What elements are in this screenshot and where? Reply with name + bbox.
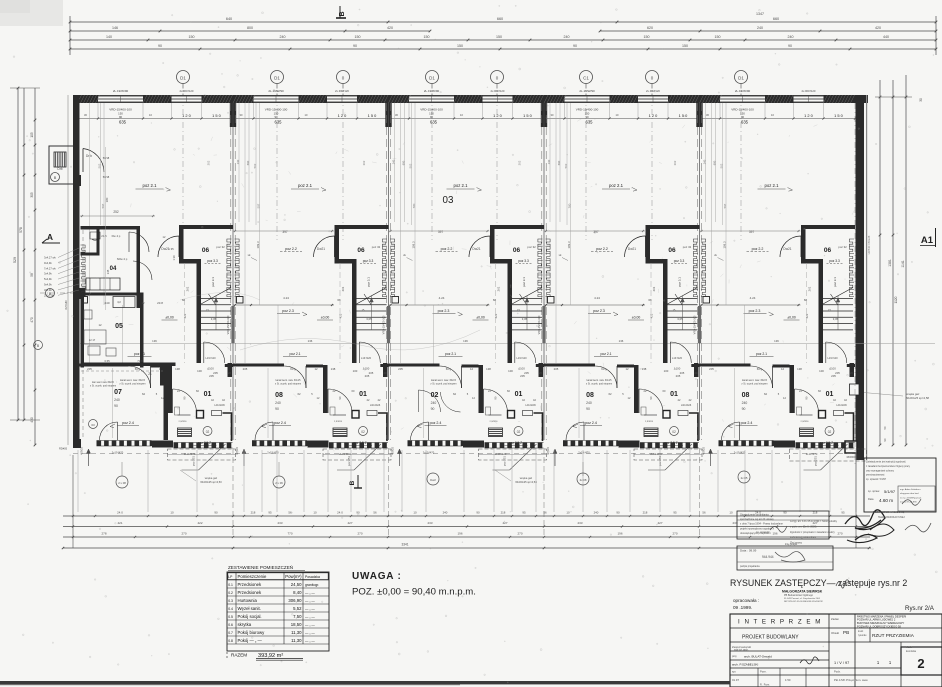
svg-text:podpis projektanta: podpis projektanta bbox=[740, 565, 760, 568]
svg-text:Data: Data bbox=[868, 497, 874, 501]
svg-text:poz 32: poz 32 bbox=[683, 245, 692, 249]
svg-text:poz 3.3: poz 3.3 bbox=[674, 259, 685, 263]
svg-text:150: 150 bbox=[189, 35, 195, 39]
svg-text:L19 f120: L19 f120 bbox=[516, 356, 527, 360]
svg-text:3x70x80: 3x70x80 bbox=[65, 300, 68, 310]
svg-text:opracowała :: opracowała : bbox=[733, 598, 759, 603]
replacement drawing note bbox=[730, 578, 935, 612]
svg-text:421: 421 bbox=[117, 521, 122, 525]
svg-text:100: 100 bbox=[508, 369, 513, 373]
svg-text:205: 205 bbox=[524, 371, 529, 375]
svg-text:196: 196 bbox=[772, 532, 777, 536]
svg-text:56: 56 bbox=[702, 511, 706, 515]
svg-text:±0,00: ±0,00 bbox=[476, 316, 485, 320]
svg-text:Dw21: Dw21 bbox=[628, 247, 636, 251]
svg-text:Δ100: Δ100 bbox=[674, 367, 681, 371]
svg-text:18,50: 18,50 bbox=[291, 622, 302, 627]
svg-text:8,40: 8,40 bbox=[293, 590, 302, 595]
svg-text:A: A bbox=[47, 232, 53, 242]
door arc into stair core x=233 bbox=[314, 236, 335, 257]
svg-text:L40-0A06: L40-0A06 bbox=[525, 404, 536, 407]
exterior right wall bbox=[856, 95, 868, 460]
svg-text:poz 2.1: poz 2.1 bbox=[298, 183, 313, 188]
svg-text:261: 261 bbox=[341, 286, 345, 291]
svg-text:635: 635 bbox=[275, 120, 283, 125]
svg-text:136: 136 bbox=[774, 339, 779, 343]
lower room center leader x=544 bbox=[578, 368, 580, 438]
svg-text:30: 30 bbox=[919, 98, 923, 102]
svg-text:640: 640 bbox=[226, 17, 232, 21]
svg-text:95: 95 bbox=[522, 511, 526, 515]
lower rooms walls x=544 bbox=[544, 363, 700, 441]
svg-text:2L19 f470: 2L19 f470 bbox=[495, 452, 507, 456]
wc fixtures x=388 bbox=[486, 407, 533, 423]
svg-text:205: 205 bbox=[398, 367, 403, 371]
svg-text:01: 01 bbox=[826, 391, 834, 398]
svg-text:skrytka: skrytka bbox=[238, 622, 252, 627]
svg-text:Zgodność z przepisami i zasada: Zgodność z przepisami i zasadami wiedzy bbox=[790, 531, 835, 534]
poz251 leader x=77 bbox=[182, 444, 226, 470]
svg-text:01: 01 bbox=[359, 391, 367, 398]
stair room labels x=544 bbox=[648, 245, 691, 318]
svg-text:poz 3.3: poz 3.3 bbox=[518, 259, 529, 263]
svg-text:Dr b: Dr b bbox=[86, 154, 92, 158]
svg-text:50/18: 50/18 bbox=[103, 175, 110, 179]
svg-text:62: 62 bbox=[297, 392, 301, 396]
exterior left wall bbox=[68, 95, 83, 445]
svg-text:Δ100: Δ100 bbox=[207, 367, 214, 371]
svg-text:302: 302 bbox=[518, 160, 522, 165]
svg-text:420: 420 bbox=[875, 26, 881, 30]
svg-text:21: 21 bbox=[148, 372, 152, 376]
svg-text:60x60x25 sp=4,50: 60x60x25 sp=4,50 bbox=[200, 480, 222, 484]
svg-text:poz 2.1: poz 2.1 bbox=[453, 183, 468, 188]
svg-text:3,05: 3,05 bbox=[677, 317, 683, 321]
svg-text:12 17: 12 17 bbox=[89, 338, 96, 342]
room schedule table bbox=[227, 564, 329, 660]
svg-text:58: 58 bbox=[30, 273, 34, 277]
right wall meander bbox=[849, 239, 854, 297]
svg-text:780: 780 bbox=[412, 203, 416, 208]
svg-text:Pomieszczenie: Pomieszczenie bbox=[238, 574, 268, 579]
svg-text:komórka: komórka bbox=[906, 649, 917, 653]
svg-text:90: 90 bbox=[158, 44, 162, 48]
svg-text:3341: 3341 bbox=[401, 543, 408, 547]
svg-text:205: 205 bbox=[835, 371, 840, 375]
svg-text:02: 02 bbox=[828, 430, 832, 434]
svg-text:PB Budownictwo Ogólnego: PB Budownictwo Ogólnego bbox=[784, 594, 814, 597]
svg-text:09 .1999.: 09 .1999. bbox=[733, 605, 752, 610]
svg-text:A-tryg. art. z dn. 05.xx.1994: A-tryg. art. z dn. 05.xx.1994 r. Tekst j… bbox=[790, 520, 838, 523]
terrace door arc x=233 bbox=[255, 422, 273, 440]
svg-text:07: 07 bbox=[114, 389, 122, 396]
svg-text:Zaświadczenie jest ważny(a) zg: Zaświadczenie jest ważny(a) zgodność bbox=[866, 461, 907, 464]
svg-text:9x4,9k: 9x4,9k bbox=[44, 283, 52, 287]
svg-text:— „ —: — „ — bbox=[305, 607, 315, 611]
svg-text:— „ —: — „ — bbox=[305, 615, 315, 619]
svg-text:poz 2.4: poz 2.4 bbox=[585, 421, 597, 425]
column footing box right bbox=[845, 441, 857, 459]
svg-text:Dw21: Dw21 bbox=[783, 247, 791, 251]
svg-text:D1: D1 bbox=[180, 75, 186, 80]
svg-text:62: 62 bbox=[608, 392, 612, 396]
svg-text:— „ —: — „ — bbox=[305, 631, 315, 635]
svg-text:z późn. zm. (Dz.U. 2000): z późn. zm. (Dz.U. 2000) bbox=[790, 525, 817, 528]
svg-text:240: 240 bbox=[431, 401, 437, 405]
svg-text:z St. ocynk. pod stropem: z St. ocynk. pod stropem bbox=[90, 384, 116, 387]
svg-text:2L19 f470: 2L19 f470 bbox=[184, 452, 196, 456]
svg-text:POZNAŃ UL.DOBROSZYCKIEGO 38: POZNAŃ UL.DOBROSZYCKIEGO 38 bbox=[857, 624, 901, 628]
poz251 leader x=388 bbox=[493, 444, 537, 470]
room labels lower x=233 bbox=[262, 379, 372, 446]
svg-text:690: 690 bbox=[713, 160, 717, 165]
svg-text:2,7x3,9k: 2,7x3,9k bbox=[44, 293, 55, 297]
svg-text:poz 3.1: poz 3.1 bbox=[833, 277, 837, 287]
svg-text:90: 90 bbox=[616, 511, 620, 515]
circled marker 02 x=233 bbox=[359, 427, 368, 436]
svg-text:1|2: 1|2 bbox=[117, 300, 121, 304]
svg-text:233: 233 bbox=[427, 521, 432, 525]
svg-text:poz 3.1: poz 3.1 bbox=[678, 277, 682, 287]
door arc room01 x=77 bbox=[173, 389, 197, 413]
svg-text:218: 218 bbox=[251, 511, 256, 515]
svg-text:Pokój biurowy: Pokój biurowy bbox=[238, 630, 266, 635]
room labels lower x=544 bbox=[573, 379, 683, 446]
grid dashdot right wall bbox=[854, 103, 856, 465]
svg-text:5,52: 5,52 bbox=[293, 606, 302, 611]
svg-text:arch. BULAT-Oswald: arch. BULAT-Oswald bbox=[744, 655, 772, 659]
svg-text:2,9/9/26: 2,9/9/26 bbox=[490, 421, 499, 423]
svg-text:03: 03 bbox=[91, 423, 95, 427]
staircase treads x=233 bbox=[357, 288, 387, 331]
svg-text:205: 205 bbox=[213, 371, 218, 375]
svg-text:240: 240 bbox=[104, 301, 109, 305]
svg-text:421: 421 bbox=[183, 313, 187, 318]
svg-text:poz 2.1: poz 2.1 bbox=[445, 352, 456, 356]
svg-text:z St. ocynk. pod stropem: z St. ocynk. pod stropem bbox=[741, 382, 767, 385]
svg-text:90: 90 bbox=[742, 407, 746, 411]
svg-text:136: 136 bbox=[463, 339, 468, 343]
svg-text:0.7: 0.7 bbox=[228, 631, 233, 635]
svg-text:02: 02 bbox=[517, 430, 521, 434]
svg-text:90: 90 bbox=[214, 511, 218, 515]
section marker B top bbox=[336, 6, 346, 18]
lower room center leader x=699 bbox=[734, 368, 736, 438]
svg-text:90: 90 bbox=[788, 44, 792, 48]
svg-text:5x4,9k: 5x4,9k bbox=[44, 277, 52, 281]
svg-text:04: 04 bbox=[110, 266, 117, 272]
poz251 leader x=544 bbox=[648, 444, 692, 470]
circled marker 02 x=388 bbox=[514, 427, 523, 436]
svg-text:4(9)f20: 4(9)f20 bbox=[703, 447, 706, 455]
svg-text:1 5 0: 1 5 0 bbox=[834, 113, 843, 118]
svg-text:60x60x25 sp=4,58: 60x60x25 sp=4,58 bbox=[906, 396, 929, 400]
room labels lower x=77 bbox=[119, 379, 216, 446]
top dimension lines bbox=[69, 12, 938, 55]
svg-text:Hurtownia: Hurtownia bbox=[238, 598, 258, 603]
svg-text:4.24: 4.24 bbox=[283, 296, 289, 300]
svg-text:1 5 0: 1 5 0 bbox=[368, 113, 377, 118]
svg-text:10: 10 bbox=[566, 511, 570, 515]
svg-text:2x19 f470: 2x19 f470 bbox=[423, 451, 435, 455]
svg-text:51-649 Poznań, ul. Zmysłowska: 51-649 Poznań, ul. Zmysłowska 20/4 bbox=[784, 598, 821, 600]
svg-text:800: 800 bbox=[247, 26, 253, 30]
svg-text:10: 10 bbox=[313, 511, 317, 515]
svg-text:POZNAŃ UL.ARMII LUDOWEJ 2: POZNAŃ UL.ARMII LUDOWEJ 2 bbox=[857, 618, 896, 622]
vent shaft hatched x=699 bbox=[800, 428, 814, 437]
svg-text:poz 2.1: poz 2.1 bbox=[609, 183, 624, 188]
faint scratch curves bbox=[180, 293, 480, 351]
landing door arc x=699 bbox=[826, 342, 847, 378]
door arc into stair core x=77 bbox=[158, 236, 179, 257]
svg-text:660: 660 bbox=[773, 17, 779, 21]
room 07 top wall bbox=[81, 359, 176, 386]
svg-text:z St. ocynk. pod stropem: z St. ocynk. pod stropem bbox=[119, 382, 145, 385]
svg-text:A1: A1 bbox=[921, 235, 934, 246]
svg-text:430: 430 bbox=[30, 417, 34, 423]
svg-text:1 / V / 97: 1 / V / 97 bbox=[834, 661, 849, 665]
lower rooms walls x=77 bbox=[78, 350, 234, 441]
svg-text:397: 397 bbox=[282, 230, 288, 234]
upper room annotations x=388 bbox=[389, 183, 490, 357]
svg-text:140: 140 bbox=[106, 35, 112, 39]
svg-text:24.0: 24.0 bbox=[117, 511, 123, 515]
svg-text:205: 205 bbox=[554, 367, 559, 371]
svg-text:poz 251: poz 251 bbox=[503, 456, 507, 466]
svg-text:VRD-15/400-100: VRD-15/400-100 bbox=[538, 315, 541, 334]
svg-text:150: 150 bbox=[424, 35, 430, 39]
svg-text:2x.RD/f120: 2x.RD/f120 bbox=[802, 89, 816, 93]
vent shaft hatched x=77 bbox=[178, 428, 192, 437]
svg-text:2,9/9/26: 2,9/9/26 bbox=[334, 421, 343, 423]
svg-text:4.24: 4.24 bbox=[750, 296, 756, 300]
svg-text:Δ100: Δ100 bbox=[518, 367, 525, 371]
svg-text:Dw2: Dw2 bbox=[430, 478, 436, 482]
svg-text:POZWOLENIE NA BUDOWĘ: POZWOLENIE NA BUDOWĘ bbox=[873, 511, 905, 514]
svg-text:138: 138 bbox=[486, 367, 491, 371]
svg-text:100: 100 bbox=[353, 369, 358, 373]
svg-text:RYSUNEK ZASTĘPCZY— zastępuje: RYSUNEK ZASTĘPCZY— zastępuje rys.nr 2 bbox=[730, 578, 907, 588]
svg-text:Obiekt: Obiekt bbox=[831, 631, 839, 635]
svg-text:3x4,9k: 3x4,9k bbox=[44, 288, 52, 292]
svg-text:poz 32: poz 32 bbox=[372, 245, 381, 249]
dim texts above lower rooms x=544 bbox=[554, 367, 698, 407]
svg-text:12: 12 bbox=[781, 367, 785, 371]
svg-text:1381: 1381 bbox=[888, 259, 892, 267]
svg-text:Pkt.4.5/K Przęd. rium. wew.: Pkt.4.5/K Przęd. rium. wew. bbox=[834, 678, 869, 682]
door arc room08 x=77 bbox=[129, 366, 151, 388]
svg-text:okręgowa izba bud.: okręgowa izba bud. bbox=[900, 492, 919, 495]
svg-text:poz 3.3: poz 3.3 bbox=[829, 259, 840, 263]
svg-text:240: 240 bbox=[564, 35, 570, 39]
svg-text:196: 196 bbox=[457, 532, 462, 536]
svg-text:502: 502 bbox=[409, 163, 413, 168]
svg-text:1:50: 1:50 bbox=[785, 678, 791, 682]
svg-text:100: 100 bbox=[819, 369, 824, 373]
svg-text:02: 02 bbox=[672, 430, 676, 434]
svg-text:56: 56 bbox=[373, 511, 377, 515]
svg-text:06: 06 bbox=[513, 247, 521, 254]
svg-text:138: 138 bbox=[642, 367, 647, 371]
svg-text:2 x 06: 2 x 06 bbox=[275, 481, 283, 485]
svg-text:690: 690 bbox=[246, 160, 250, 165]
svg-text:397: 397 bbox=[438, 230, 444, 234]
svg-text:Drb: Drb bbox=[57, 167, 62, 171]
svg-text:L40-0A06: L40-0A06 bbox=[370, 404, 381, 407]
svg-text:Data : 09.09: Data : 09.09 bbox=[740, 549, 757, 553]
svg-text:poz 2.2: poz 2.2 bbox=[752, 247, 764, 251]
svg-text:90: 90 bbox=[476, 511, 480, 515]
svg-text:23.8: 23.8 bbox=[157, 301, 163, 305]
grid circle B left wall bbox=[40, 173, 73, 298]
stair core walls unit x=233 bbox=[335, 225, 389, 363]
svg-text:poz 32: poz 32 bbox=[838, 245, 847, 249]
svg-text:06: 06 bbox=[668, 247, 676, 254]
svg-text:poz 2.1: poz 2.1 bbox=[764, 183, 779, 188]
dim texts above lower rooms x=388 bbox=[398, 367, 542, 407]
svg-text:Dw21: Dw21 bbox=[472, 247, 480, 251]
svg-text:01: 01 bbox=[515, 391, 523, 398]
svg-text:technicznej potwierdzam: technicznej potwierdzam bbox=[790, 536, 816, 539]
vent shaft hatched x=544 bbox=[644, 428, 658, 437]
svg-text:420: 420 bbox=[387, 26, 393, 30]
room labels lower x=388 bbox=[418, 379, 528, 446]
wc fixtures x=77 bbox=[175, 407, 222, 423]
svg-text:05: 05 bbox=[115, 323, 123, 330]
svg-text:218: 218 bbox=[643, 511, 648, 515]
svg-text:62: 62 bbox=[453, 392, 457, 396]
scan corner shadow top-left bbox=[0, 0, 63, 26]
svg-text:502: 502 bbox=[564, 163, 568, 168]
svg-text:1347: 1347 bbox=[756, 12, 764, 16]
svg-text:D1: D1 bbox=[274, 75, 280, 80]
svg-text:218: 218 bbox=[501, 511, 506, 515]
upper room annotations x=699 bbox=[700, 183, 801, 357]
svg-text:NIP 978-057-55-30 REGON 0204: NIP 978-057-55-30 REGON 020410232 bbox=[784, 601, 824, 603]
svg-text:90: 90 bbox=[586, 407, 590, 411]
svg-text:50/18: 50/18 bbox=[103, 156, 110, 160]
upper room annotations x=77 bbox=[128, 183, 178, 357]
svg-text:270: 270 bbox=[517, 532, 522, 536]
svg-text:Lp. spraw.: Lp. spraw. bbox=[868, 489, 880, 493]
svg-text:poz 32: poz 32 bbox=[216, 245, 225, 249]
svg-text:1 5 0: 1 5 0 bbox=[679, 113, 688, 118]
svg-text:10: 10 bbox=[170, 511, 174, 515]
svg-text:1 2 0: 1 2 0 bbox=[338, 113, 347, 118]
svg-text:690: 690 bbox=[557, 160, 561, 165]
svg-text:9x4,9k: 9x4,9k bbox=[44, 261, 52, 265]
svg-text:L19 f120: L19 f120 bbox=[672, 356, 683, 360]
svg-text:597: 597 bbox=[101, 203, 105, 208]
svg-text:3x4,27 wk: 3x4,27 wk bbox=[44, 256, 56, 260]
column grid markers bbox=[177, 71, 748, 241]
svg-text:B: B bbox=[54, 176, 57, 180]
dim texts above lower rooms x=233 bbox=[243, 367, 387, 407]
svg-text:SDw 4 p: SDw 4 p bbox=[117, 257, 128, 261]
svg-text:poz 3.3: poz 3.3 bbox=[207, 259, 218, 263]
svg-text:1141: 1141 bbox=[901, 260, 905, 267]
svg-text:z zasadami bezpieczeństwa i hi: z zasadami bezpieczeństwa i higieny prac… bbox=[866, 465, 911, 468]
svg-text:138: 138 bbox=[175, 367, 180, 371]
svg-text:780: 780 bbox=[568, 203, 572, 208]
svg-text:3x4,9k: 3x4,9k bbox=[44, 272, 52, 276]
svg-text:06: 06 bbox=[357, 247, 365, 254]
svg-text:poz 2.1: poz 2.1 bbox=[142, 183, 157, 188]
title block bbox=[730, 614, 942, 687]
svg-text:RD#05: RD#05 bbox=[59, 447, 68, 451]
staircase treads x=388 bbox=[512, 288, 542, 331]
svg-text:3,05: 3,05 bbox=[366, 317, 372, 321]
dim texts above lower rooms x=77 bbox=[87, 367, 231, 407]
svg-text:poz 2.1: poz 2.1 bbox=[600, 352, 611, 356]
stair core walls unit x=699 bbox=[801, 225, 855, 363]
wall panel box x=233 bbox=[237, 297, 244, 304]
svg-text:2L.19/W/90: 2L.19/W/90 bbox=[579, 89, 595, 93]
svg-text:60 g: 60 g bbox=[135, 367, 141, 371]
svg-text:oraz wymaganiami ochrony: oraz wymaganiami ochrony bbox=[866, 469, 895, 472]
dim texts above lower rooms x=699 bbox=[709, 367, 853, 407]
left wall meander bbox=[81, 245, 86, 295]
svg-text:660: 660 bbox=[497, 17, 503, 21]
svg-text:1 2 0: 1 2 0 bbox=[182, 113, 191, 118]
room 05 furniture bbox=[84, 310, 123, 356]
svg-text:1 2 0: 1 2 0 bbox=[649, 113, 658, 118]
svg-text:wnęka gaz: wnęka gaz bbox=[520, 476, 533, 480]
svg-text:24.0: 24.0 bbox=[337, 511, 343, 515]
door arc room01 x=544 bbox=[639, 389, 663, 413]
wc fixtures x=233 bbox=[330, 407, 377, 423]
svg-text:66: 66 bbox=[804, 298, 808, 302]
svg-text:90: 90 bbox=[573, 44, 577, 48]
svg-text:2x.RD/f120: 2x.RD/f120 bbox=[491, 89, 505, 93]
svg-text:mgr inż. arch.: mgr inż. arch. bbox=[734, 649, 749, 652]
bottom small stamp texts bbox=[180, 470, 537, 484]
svg-text:240: 240 bbox=[788, 35, 794, 39]
svg-text:poz 2.3: poz 2.3 bbox=[593, 309, 605, 313]
wc fixtures x=699 bbox=[797, 407, 844, 423]
svg-text:421: 421 bbox=[494, 313, 498, 318]
svg-text:4.24: 4.24 bbox=[439, 296, 445, 300]
svg-text:poz 3.1: poz 3.1 bbox=[211, 277, 215, 287]
svg-text:Pokój — „ —: Pokój — „ — bbox=[238, 638, 263, 643]
svg-text:305: 305 bbox=[30, 192, 34, 198]
svg-text:21.5: 21.5 bbox=[101, 234, 107, 238]
svg-text:1 2 0: 1 2 0 bbox=[493, 113, 502, 118]
svg-text:nr ew. 47/3/W/poznań: nr ew. 47/3/W/poznań bbox=[900, 496, 922, 499]
svg-text:150: 150 bbox=[715, 35, 721, 39]
svg-text:1 5 0: 1 5 0 bbox=[523, 113, 532, 118]
svg-text:12: 12 bbox=[625, 367, 629, 371]
svg-text:granitogr.: granitogr. bbox=[305, 583, 319, 587]
svg-text:4.60 m: 4.60 m bbox=[879, 498, 893, 503]
meander leader labels left bbox=[44, 248, 79, 297]
svg-text:01.97: 01.97 bbox=[732, 678, 739, 682]
svg-text:138: 138 bbox=[331, 367, 336, 371]
svg-text:10: 10 bbox=[729, 511, 733, 515]
svg-text:Dw 4 p: Dw 4 p bbox=[112, 234, 121, 238]
svg-text:poz 32: poz 32 bbox=[527, 245, 536, 249]
svg-text:12: 12 bbox=[141, 301, 145, 305]
svg-text:690: 690 bbox=[402, 160, 406, 165]
svg-text:205: 205 bbox=[709, 367, 714, 371]
stair room labels x=233 bbox=[337, 245, 380, 318]
svg-text:66: 66 bbox=[337, 298, 341, 302]
svg-text:2L.19/W/90: 2L.19/W/90 bbox=[424, 89, 440, 93]
section marker B bottom bbox=[349, 475, 362, 488]
first module dim texts bbox=[80, 147, 176, 310]
svg-text:3,05: 3,05 bbox=[522, 317, 528, 321]
svg-text:136: 136 bbox=[152, 339, 157, 343]
